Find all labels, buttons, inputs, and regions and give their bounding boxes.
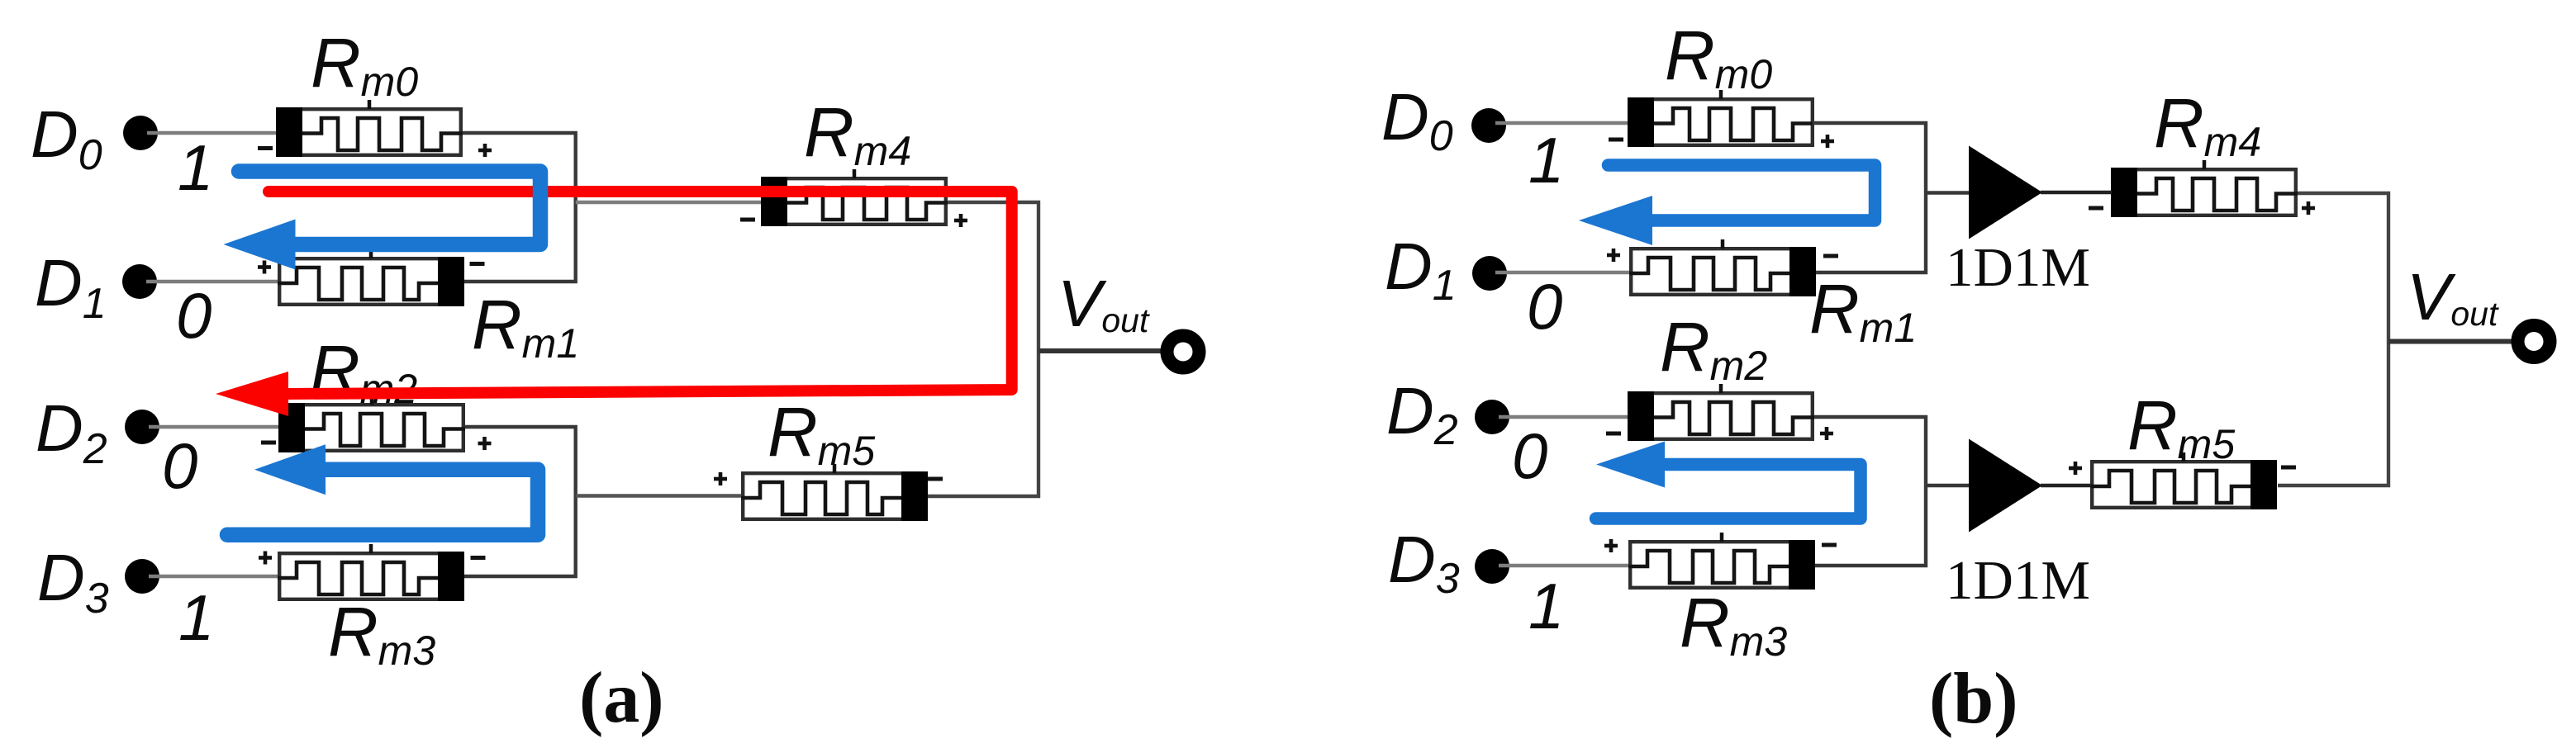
svg-text:1D1M: 1D1M xyxy=(1946,237,2090,298)
svg-text:1D1M: 1D1M xyxy=(1946,550,2090,611)
svg-text:1: 1 xyxy=(1528,570,1564,642)
svg-text:(a): (a) xyxy=(579,658,664,738)
svg-text:1: 1 xyxy=(178,581,214,654)
svg-text:0: 0 xyxy=(1527,270,1562,343)
svg-text:1: 1 xyxy=(1528,124,1564,197)
svg-text:(b): (b) xyxy=(1929,659,2018,739)
svg-text:0: 0 xyxy=(1512,419,1547,492)
svg-text:0: 0 xyxy=(162,429,197,502)
svg-text:0: 0 xyxy=(176,279,211,352)
svg-text:1: 1 xyxy=(178,131,213,204)
